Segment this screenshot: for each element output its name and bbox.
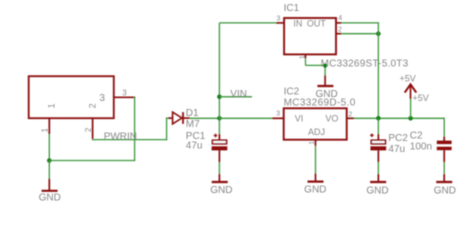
svg-text:M7: M7 xyxy=(186,119,200,130)
capacitor PC1 (polarized) xyxy=(212,134,228,163)
capacitor PC2 (polarized) xyxy=(370,134,386,163)
IC2 pin number 2 xyxy=(348,112,352,119)
IC1 name label xyxy=(284,3,300,14)
svg-text:2: 2 xyxy=(87,103,97,108)
ground GND3 (under IC1) xyxy=(315,75,337,100)
wire out rail vertical xyxy=(377,23,379,118)
svg-text:1: 1 xyxy=(309,141,316,145)
junction +5V node xyxy=(408,116,413,121)
wire +5V stem to rail xyxy=(410,99,412,119)
svg-text:4: 4 xyxy=(338,15,342,22)
connector X1 pin 1 stub xyxy=(48,118,50,135)
svg-text:3: 3 xyxy=(99,93,105,104)
ground GND5 (under PC2) xyxy=(366,174,388,196)
svg-text:+5V: +5V xyxy=(413,93,429,103)
IC1 pin number 2 xyxy=(338,26,342,33)
IC1 pin number 3 xyxy=(277,16,281,23)
svg-text:GND: GND xyxy=(304,185,326,196)
junction PC2 node xyxy=(376,116,381,121)
wire IC1 pin2 to rail xyxy=(341,33,378,35)
wire PC2 to ground xyxy=(377,162,379,175)
connector X1 body xyxy=(29,76,114,118)
IC1 pin name IN xyxy=(293,19,302,29)
junction node VIN main xyxy=(217,116,222,121)
wire diode cathode to node xyxy=(190,117,221,119)
junction IC1 out rail xyxy=(376,31,381,36)
IC1 pin number 4 xyxy=(338,15,342,22)
wire node down to PC1 xyxy=(218,118,220,135)
wire PWRIN horizontal xyxy=(92,139,167,141)
IC1 pin 3 stub xyxy=(276,22,284,24)
ground GND4 (under IC2) xyxy=(304,174,326,196)
wire IC1 gnd L xyxy=(306,59,326,76)
wire C2 branch xyxy=(443,118,445,138)
wire PWRIN up to diode level xyxy=(166,118,168,140)
svg-text:GND: GND xyxy=(210,185,232,196)
connector X1 pad number 2 (rotated) xyxy=(84,127,93,132)
IC2 pin 2 stub xyxy=(347,117,355,119)
IC1 pin number 1 (rotated) xyxy=(300,55,307,59)
wire PC1 to ground xyxy=(218,162,220,175)
wire IC2 adj to ground xyxy=(315,146,317,174)
wire top horizontal to IC1 pin3 xyxy=(219,22,276,24)
diode D1 xyxy=(168,112,190,124)
wire IC1 pin4 to rail xyxy=(341,22,379,24)
wire PC2 branch xyxy=(377,118,379,135)
svg-text:2: 2 xyxy=(348,112,352,119)
svg-text:1: 1 xyxy=(46,103,56,108)
junction IC1 gnd corner xyxy=(323,64,327,68)
label PC1 name xyxy=(186,131,206,142)
net label PWRIN xyxy=(104,131,137,142)
svg-text:1: 1 xyxy=(300,55,307,59)
net label VIN xyxy=(230,89,247,100)
svg-text:2: 2 xyxy=(338,26,342,33)
connector X1 pin name 2 (rotated) xyxy=(87,103,97,108)
IC1 pin 1 stub (gnd) xyxy=(305,54,307,58)
connector X1 pin 2 stub xyxy=(92,118,94,139)
wire junction down to GND symbol xyxy=(48,161,50,180)
junction at pin1/ground node xyxy=(47,158,52,163)
connector X1 pad number 3 xyxy=(122,88,127,97)
IC1 body xyxy=(284,18,336,54)
svg-text:47u: 47u xyxy=(186,141,203,152)
svg-text:VIN: VIN xyxy=(230,89,247,100)
wire ground horizontal y=160 xyxy=(49,160,134,162)
label D1 name xyxy=(186,108,199,119)
svg-text:MC33269ST-5.0T3: MC33269ST-5.0T3 xyxy=(321,58,409,69)
IC2 pin number 1 (rotated) xyxy=(309,141,316,145)
connector X1 pin name 3 xyxy=(99,93,105,104)
svg-text:C2: C2 xyxy=(410,130,423,141)
label C2 value 100n xyxy=(410,142,432,153)
IC2 pin name VI xyxy=(295,114,304,124)
IC2 name label xyxy=(284,86,300,97)
wire to diode anode xyxy=(166,117,170,119)
label PC2 value 47u xyxy=(388,144,405,155)
wire node to IC2 VI xyxy=(219,117,272,119)
svg-text:ADJ: ADJ xyxy=(308,127,325,137)
connector X1 pin 3 stub xyxy=(113,96,135,98)
IC2 pin adj stub xyxy=(315,140,317,147)
wire C2 to ground xyxy=(443,162,445,175)
svg-text:2: 2 xyxy=(84,127,93,132)
svg-text:PC2: PC2 xyxy=(388,133,408,144)
wire VIN label stub xyxy=(219,96,252,98)
label PC1 value 47u xyxy=(186,141,203,152)
svg-text:OUT: OUT xyxy=(307,19,327,29)
IC2 body xyxy=(284,108,347,139)
svg-text:IC1: IC1 xyxy=(284,3,300,14)
svg-text:MC33269D-5.0: MC33269D-5.0 xyxy=(284,97,356,108)
IC1 value MC33269ST-5.0T3 xyxy=(321,58,409,69)
svg-text:VO: VO xyxy=(325,114,338,124)
svg-text:GND: GND xyxy=(39,193,61,204)
svg-text:PWRIN: PWRIN xyxy=(104,131,137,142)
ground GND6 (under C2) xyxy=(434,174,456,196)
svg-text:GND: GND xyxy=(366,185,388,196)
wire +5V output rail horizontal xyxy=(354,117,444,119)
svg-text:100n: 100n xyxy=(410,142,432,153)
wire main vertical up to IC1 xyxy=(218,23,220,118)
IC1 pin name OUT xyxy=(307,19,327,29)
label C2 name xyxy=(410,130,423,141)
IC2 pin 3 stub xyxy=(272,117,284,119)
label D1 value M7 xyxy=(186,119,200,130)
IC1 pin 4 stub xyxy=(336,22,342,24)
supply +5V label upper xyxy=(400,74,416,84)
svg-text:3: 3 xyxy=(276,111,280,118)
wire pin3 vertical x=134.6 xyxy=(134,97,136,162)
connector X1 pin name 1 (rotated) xyxy=(46,103,56,108)
capacitor C2 xyxy=(437,137,452,163)
supply +5V arrow xyxy=(405,84,417,99)
junction VIN label stub xyxy=(217,95,222,100)
IC2 pin name ADJ xyxy=(308,127,325,137)
svg-text:D1: D1 xyxy=(186,108,199,119)
svg-text:3: 3 xyxy=(277,16,281,23)
supply +5V label lower (second symbol) xyxy=(413,93,429,103)
svg-text:VI: VI xyxy=(295,114,304,124)
svg-text:3: 3 xyxy=(122,88,127,97)
connector X1 pad number 1 (rotated) xyxy=(41,128,50,133)
svg-text:IN: IN xyxy=(293,19,302,29)
label PC2 name xyxy=(388,133,408,144)
svg-text:IC2: IC2 xyxy=(284,86,300,97)
IC1 pin 2 stub xyxy=(336,33,342,35)
IC2 pin number 3 xyxy=(276,111,280,118)
ground GND2 (under PC1) xyxy=(210,174,232,196)
svg-text:GND: GND xyxy=(434,185,456,196)
IC2 pin name VO xyxy=(325,114,338,124)
wire pin1 down to junction xyxy=(48,134,50,161)
ground GND1 (left) xyxy=(39,179,61,204)
svg-text:+5V: +5V xyxy=(400,74,416,84)
svg-text:47u: 47u xyxy=(388,144,405,155)
svg-text:1: 1 xyxy=(41,128,50,133)
IC2 value MC33269D-5.0 xyxy=(284,97,356,108)
